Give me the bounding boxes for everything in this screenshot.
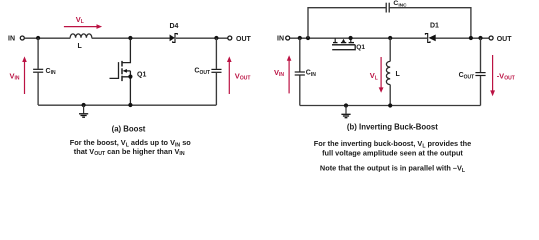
svg-text:(b) Inverting Buck-Boost: (b) Inverting Buck-Boost xyxy=(347,123,438,132)
wire inductor to drain node and to D4 anode xyxy=(92,37,170,39)
channel segment bottom xyxy=(121,76,123,81)
node junction dot COUT top xyxy=(214,36,218,40)
node junction dot top-branch xyxy=(306,36,310,40)
capacitor CIN xyxy=(37,38,39,69)
svg-text:Q1: Q1 xyxy=(356,44,365,51)
wire D1 to OUT xyxy=(436,37,489,39)
arrow VOUT red (up) xyxy=(228,61,230,94)
svg-text:Note that the output is in par: Note that the output is in parallel with… xyxy=(320,164,466,174)
svg-text:IN: IN xyxy=(8,36,15,43)
node MOSFET source junction dot xyxy=(128,103,132,107)
wire top branch up and right to CINC xyxy=(308,8,386,38)
source stub xyxy=(350,38,352,43)
arrow VL red xyxy=(64,26,98,28)
node ground junction dot xyxy=(82,103,86,107)
diode D4 (schottky) xyxy=(170,35,175,42)
wire bottom rail xyxy=(300,105,481,107)
drain stub xyxy=(122,38,130,63)
diode D1 (schottky, pointing left) xyxy=(425,34,430,43)
arrow VL red (down) xyxy=(380,57,382,88)
wire D4 to COUT node to OUT xyxy=(176,37,228,39)
source stub and wire down xyxy=(122,71,130,105)
capacitor CIN xyxy=(299,38,301,72)
arrow VIN red (up) xyxy=(24,61,26,94)
svg-text:L: L xyxy=(396,71,401,78)
svg-text:OUT: OUT xyxy=(497,36,513,43)
channel segment middle xyxy=(121,68,123,74)
svg-text:Q1: Q1 xyxy=(137,72,146,79)
node inductor bottom junction dot xyxy=(388,103,392,107)
body arrow (up) xyxy=(343,41,345,42)
wire CINC to output node xyxy=(390,8,471,38)
channel segment top xyxy=(121,61,123,67)
wire bottom rail xyxy=(38,104,216,106)
channel segment right xyxy=(349,42,354,44)
svg-text:IN: IN xyxy=(277,36,284,43)
svg-text:full voltage amplitude seen at: full voltage amplitude seen at the outpu… xyxy=(322,148,463,157)
node junction dot top-branch right xyxy=(469,36,473,40)
capacitor COUT xyxy=(480,38,482,72)
node junction dot CIN top xyxy=(298,36,302,40)
svg-text:L: L xyxy=(78,43,83,50)
drain stub xyxy=(334,38,336,43)
node junction dot COUT top xyxy=(478,36,482,40)
ground xyxy=(345,106,347,114)
ground xyxy=(83,105,85,113)
capacitor CINC xyxy=(385,3,387,13)
wire IN to CIN node xyxy=(25,37,71,39)
arrow -VOUT red (down) xyxy=(492,55,494,91)
node junction dot drain xyxy=(128,36,132,40)
inductor L xyxy=(70,34,92,38)
body arrow xyxy=(126,70,130,72)
inductor L (vertical) xyxy=(389,38,391,61)
terminal OUT xyxy=(489,36,493,40)
svg-text:(a) Boost: (a) Boost xyxy=(112,125,146,134)
wire main rail IN to D1 xyxy=(290,37,427,39)
node junction dot CIN top xyxy=(36,36,40,40)
node dot source-body tie on rail xyxy=(349,36,353,40)
gate lead xyxy=(110,62,119,78)
arrow VIN red (up) xyxy=(288,60,290,93)
terminal OUT xyxy=(228,36,232,40)
node ground junction dot xyxy=(344,103,348,107)
svg-text:OUT: OUT xyxy=(236,36,252,43)
node junction dot inductor top xyxy=(388,36,392,40)
gate lead xyxy=(332,45,355,50)
gate bar xyxy=(332,44,355,46)
terminal IN xyxy=(20,36,24,40)
svg-text:that VOUT can be higher than V: that VOUT can be higher than VIN xyxy=(74,147,185,157)
terminal IN xyxy=(286,36,290,40)
node dot source-body tie xyxy=(128,75,132,79)
channel segment middle xyxy=(341,42,346,44)
svg-text:D1: D1 xyxy=(430,23,439,30)
capacitor COUT xyxy=(215,38,217,69)
channel segment left xyxy=(333,42,338,44)
svg-text:D4: D4 xyxy=(170,23,179,30)
